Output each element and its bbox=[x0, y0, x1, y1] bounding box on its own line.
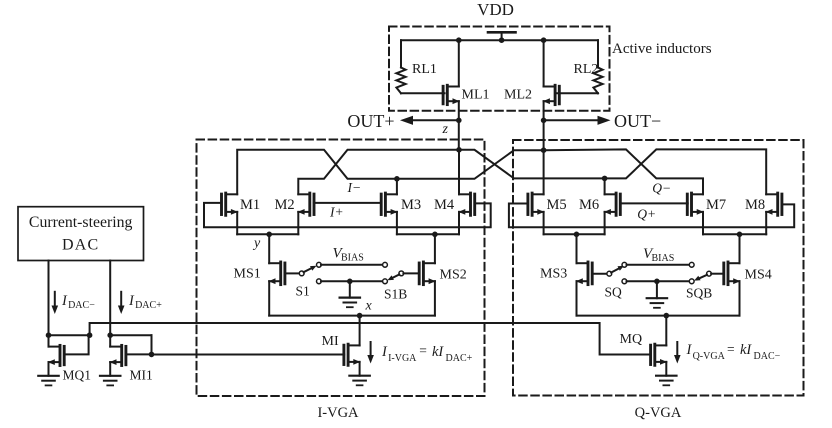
svg-text:DAC: DAC bbox=[62, 237, 99, 254]
label S1B bbox=[384, 287, 407, 302]
label RL2 bbox=[574, 62, 599, 77]
svg-text:I−: I− bbox=[347, 180, 362, 195]
wire M6 source bbox=[604, 212, 606, 234]
resistor RL2 bbox=[593, 68, 602, 94]
wire M5/M6 source rail bbox=[544, 233, 605, 235]
wire MQ drain bbox=[665, 316, 667, 346]
wire ground stem Q bbox=[656, 281, 658, 298]
label RL1 bbox=[412, 62, 437, 77]
svg-text:Q-VGA: Q-VGA bbox=[693, 351, 726, 362]
label MI bbox=[322, 334, 339, 349]
resistor RL1 bbox=[396, 68, 405, 94]
svg-text:I+: I+ bbox=[329, 205, 344, 220]
wire z to I-quad bbox=[458, 120, 460, 149]
switch SQB bbox=[694, 271, 711, 280]
svg-text:MS4: MS4 bbox=[745, 268, 772, 283]
switch S1B bbox=[387, 271, 403, 280]
wire MI1 drain drop bbox=[109, 335, 111, 346]
svg-text:BIAS: BIAS bbox=[341, 253, 364, 264]
label M8 bbox=[745, 197, 765, 213]
wire M5 gate jog to M8 gate jog bbox=[509, 204, 794, 228]
node MS2 tap bbox=[432, 232, 438, 238]
current arrow Q-VGA bbox=[674, 342, 681, 364]
node MS3 tap bbox=[574, 232, 580, 238]
ground (MI) bbox=[349, 376, 369, 386]
svg-text:I-VGA: I-VGA bbox=[317, 405, 359, 421]
transistor MI bbox=[344, 344, 360, 365]
wire MI gate (from mirror MI1) bbox=[152, 354, 345, 356]
wire M7 source bbox=[702, 212, 704, 234]
label MI1 bbox=[130, 368, 153, 383]
label ML1 bbox=[462, 88, 490, 103]
svg-text:BIAS: BIAS bbox=[652, 253, 675, 264]
node z line joins net OUT+ bbox=[456, 147, 462, 153]
label I- bbox=[347, 180, 362, 195]
label M7 bbox=[706, 197, 726, 213]
node MQ1 drain bbox=[46, 332, 52, 338]
label MS4 bbox=[745, 268, 772, 283]
node ML1 drain on rail bbox=[456, 37, 462, 43]
label Active inductors bbox=[612, 41, 712, 57]
svg-text:ML2: ML2 bbox=[504, 88, 532, 103]
wire ML1 source to OUT+ node bbox=[458, 101, 460, 120]
svg-text:=: = bbox=[419, 343, 427, 358]
wire M3 source bbox=[396, 212, 398, 234]
ground (MQ1) bbox=[38, 376, 58, 386]
svg-text:I: I bbox=[128, 293, 135, 309]
svg-text:DAC+: DAC+ bbox=[446, 353, 473, 364]
transistor MQ bbox=[651, 344, 667, 365]
label MQ1 bbox=[63, 368, 92, 383]
transistor MI1 bbox=[110, 345, 126, 365]
svg-text:Q−: Q− bbox=[652, 181, 671, 196]
wire MQ1 gate riser bbox=[65, 335, 88, 354]
transistor M1 bbox=[222, 193, 238, 215]
wire MS1/MS2 source rail (node x) bbox=[269, 315, 435, 317]
wire MS1 drain bbox=[268, 234, 270, 263]
label Q+ bbox=[637, 207, 656, 222]
svg-text:M1: M1 bbox=[240, 197, 260, 213]
svg-text:Active inductors: Active inductors bbox=[612, 41, 712, 57]
wire DAC output I_DAC+ bbox=[109, 261, 111, 336]
svg-text:M4: M4 bbox=[434, 197, 455, 213]
svg-text:SQB: SQB bbox=[686, 286, 712, 301]
wire M4 source bbox=[458, 212, 460, 234]
svg-text:RL2: RL2 bbox=[574, 62, 599, 77]
wire MS2 gate bbox=[403, 272, 418, 274]
wire MS1 source bbox=[268, 281, 270, 315]
svg-text:Q+: Q+ bbox=[637, 207, 656, 222]
wire MQ1 drain drop bbox=[48, 335, 50, 346]
svg-text:=: = bbox=[727, 342, 735, 357]
wire MI1 gate riser bbox=[151, 335, 153, 354]
label I_Q-VGA = kI_DAC- bbox=[686, 342, 781, 363]
svg-text:ML1: ML1 bbox=[462, 88, 490, 103]
wire MS3 source bbox=[576, 281, 578, 315]
label I_DAC- bbox=[61, 293, 95, 311]
label ML2 bbox=[504, 88, 532, 103]
node x junction bbox=[357, 313, 363, 319]
svg-text:SQ: SQ bbox=[605, 285, 623, 300]
wire MI drain bbox=[359, 316, 361, 346]
wire M5 drain bbox=[543, 150, 545, 194]
label node y bbox=[252, 236, 261, 251]
svg-text:x: x bbox=[365, 299, 373, 314]
svg-text:Current-steering: Current-steering bbox=[29, 214, 133, 231]
transistor ML2 bbox=[543, 85, 559, 104]
wire RL1 top bbox=[400, 40, 402, 67]
wire Q+ line (M6 gate to M7 gate) bbox=[620, 202, 688, 204]
dashed box Q-VGA bbox=[513, 140, 804, 396]
wire MS4 drain bbox=[739, 234, 741, 263]
svg-text:MS2: MS2 bbox=[440, 268, 467, 283]
svg-text:MS3: MS3 bbox=[540, 267, 567, 282]
wire MS2 source bbox=[434, 281, 436, 315]
node ground tap I bbox=[347, 279, 353, 285]
wire ML2 drain bbox=[543, 40, 545, 86]
dashed box I-VGA bbox=[197, 140, 485, 397]
svg-text:MI1: MI1 bbox=[130, 368, 153, 383]
label I_I-VGA = kI_DAC+ bbox=[381, 343, 473, 364]
transistor M3 bbox=[381, 193, 397, 215]
transistor MS2 bbox=[419, 262, 435, 285]
node OUT- line joins M5 drain bbox=[541, 147, 547, 153]
label node x bbox=[365, 299, 373, 314]
svg-text:M3: M3 bbox=[401, 197, 421, 213]
svg-text:I-VGA: I-VGA bbox=[388, 353, 417, 364]
svg-text:z: z bbox=[442, 122, 449, 137]
label node z bbox=[442, 122, 449, 137]
label OUT- bbox=[614, 111, 661, 131]
node MQ1 gate tie bbox=[87, 332, 93, 338]
node OUT- bbox=[541, 118, 547, 124]
transistor ML1 bbox=[443, 85, 459, 104]
wire M6 drain bbox=[604, 178, 606, 194]
svg-text:DAC−: DAC− bbox=[754, 351, 781, 362]
transistor MS4 bbox=[724, 262, 740, 285]
current arrow I_DAC+ bbox=[118, 292, 125, 314]
wire OUT+ arrow bbox=[400, 116, 459, 125]
wire MQ gate (long, from mirror MQ1) bbox=[90, 323, 651, 355]
svg-text:kI: kI bbox=[432, 344, 444, 360]
svg-text:MQ1: MQ1 bbox=[63, 368, 92, 383]
transistor M8 bbox=[766, 193, 782, 215]
transistor M5 bbox=[528, 193, 544, 215]
wire VBIAS bar Q bbox=[627, 262, 695, 267]
node MI1 drain bbox=[107, 332, 113, 338]
ground (switch stage Q) bbox=[647, 298, 667, 308]
wire MS2 drain bbox=[434, 234, 436, 263]
ground (switch stage I) bbox=[340, 298, 360, 308]
label VBIAS I bbox=[333, 246, 364, 264]
wire OUT- to Q-quad bbox=[543, 120, 545, 150]
power VDD label bbox=[477, 0, 514, 19]
wire MS1 gate bbox=[286, 272, 300, 274]
svg-text:M5: M5 bbox=[547, 197, 567, 213]
wire I+ line (M2 gate to M3 gate) bbox=[314, 202, 382, 204]
svg-text:DAC+: DAC+ bbox=[135, 300, 162, 311]
label M2 bbox=[275, 197, 295, 213]
svg-text:I: I bbox=[61, 293, 68, 309]
switch S1 bbox=[299, 262, 321, 275]
label M4 bbox=[434, 197, 455, 213]
svg-text:M8: M8 bbox=[745, 197, 765, 213]
label S1 bbox=[296, 284, 310, 299]
ground (MQ) bbox=[656, 376, 676, 386]
wire ML2 source to OUT- node bbox=[543, 101, 545, 120]
label MS2 bbox=[440, 268, 467, 283]
svg-text:MQ: MQ bbox=[620, 332, 643, 347]
transistor MS3 bbox=[576, 262, 592, 285]
wire MS3 gate bbox=[593, 273, 607, 275]
svg-text:MS1: MS1 bbox=[234, 267, 261, 282]
label SQB bbox=[686, 286, 712, 301]
svg-text:Q-VGA: Q-VGA bbox=[635, 405, 682, 421]
wire M2 source bbox=[297, 212, 299, 234]
wire VBIAS bar I bbox=[321, 262, 387, 267]
label M3 bbox=[401, 197, 421, 213]
transistor M6 bbox=[604, 193, 620, 215]
label Q-VGA bbox=[635, 405, 682, 421]
current arrow I-VGA bbox=[367, 342, 374, 364]
switch SQ bbox=[607, 262, 627, 276]
wire DAC output I_DAC- bbox=[48, 261, 50, 336]
current arrow I_DAC- bbox=[52, 292, 59, 314]
node M3 drain junction bbox=[394, 176, 400, 182]
svg-text:y: y bbox=[252, 236, 261, 251]
wire M3/M4 source rail bbox=[397, 233, 459, 235]
svg-text:OUT+: OUT+ bbox=[347, 111, 394, 131]
node VDD rail junction bbox=[499, 37, 505, 43]
wire net OUT+ (M2 drain to cross-couplings) bbox=[298, 149, 766, 194]
wire M5 source bbox=[543, 212, 545, 234]
wire MS4 gate bbox=[711, 273, 723, 275]
label MS3 bbox=[540, 267, 567, 282]
wire RL2 top bbox=[597, 40, 599, 67]
transistor M4 bbox=[458, 193, 474, 215]
label MQ bbox=[620, 332, 643, 347]
svg-text:OUT−: OUT− bbox=[614, 111, 661, 131]
label Q- bbox=[652, 181, 671, 196]
ground (MI1) bbox=[100, 376, 120, 386]
wire M8 source bbox=[765, 212, 767, 234]
svg-text:MI: MI bbox=[322, 334, 339, 349]
svg-text:I: I bbox=[381, 344, 388, 360]
label I+ bbox=[329, 205, 344, 220]
label SQ bbox=[605, 285, 623, 300]
label I_DAC+ bbox=[128, 293, 162, 311]
wire MI1 source bbox=[109, 362, 111, 376]
svg-text:M6: M6 bbox=[579, 197, 599, 213]
node ML2 drain on rail bbox=[541, 37, 547, 43]
wire M4 drain bbox=[458, 150, 460, 195]
node MQ drain tap bbox=[664, 313, 670, 319]
label OUT+ bbox=[347, 111, 394, 131]
label M6 bbox=[579, 197, 599, 213]
wire MI1 gate bbox=[127, 353, 152, 355]
svg-text:RL1: RL1 bbox=[412, 62, 437, 77]
svg-text:M2: M2 bbox=[275, 197, 295, 213]
wire net OUT- (M1/M3 drains, I- line) bbox=[237, 150, 543, 195]
transistor M2 bbox=[298, 193, 314, 215]
wire ground bar Q bbox=[622, 279, 694, 284]
wire ground stem I bbox=[349, 281, 351, 297]
power VDD symbol bbox=[488, 32, 516, 40]
wire MI1 drain rail bbox=[110, 334, 151, 336]
wire RL1 to ML1 gate bbox=[401, 92, 445, 94]
node y junction bbox=[266, 232, 272, 238]
svg-text:S1: S1 bbox=[296, 284, 310, 299]
svg-text:DAC−: DAC− bbox=[68, 300, 95, 311]
label M5 bbox=[547, 197, 567, 213]
dashed box Active inductors bbox=[389, 27, 610, 111]
wire OUT- arrow bbox=[544, 116, 611, 125]
wire M1 source bbox=[236, 212, 238, 234]
wire M1 gate jog to M4 gate jog bbox=[204, 203, 491, 227]
transistor M7 bbox=[687, 193, 703, 215]
svg-text:M7: M7 bbox=[706, 197, 726, 213]
node ground tap Q bbox=[654, 279, 660, 285]
wire M1/M2 source rail (node y) bbox=[237, 233, 298, 235]
wire MS3/MS4 source rail bbox=[577, 315, 740, 317]
transistor MS1 bbox=[269, 262, 285, 285]
wire VDD rail bbox=[401, 39, 598, 41]
wire MQ source bbox=[665, 362, 667, 376]
node MI1 gate tie bbox=[149, 352, 155, 358]
svg-text:kI: kI bbox=[740, 342, 752, 358]
label VBIAS Q bbox=[643, 246, 674, 264]
wire M7/M8 source rail bbox=[703, 233, 766, 235]
wire MQ1 drain rail bbox=[49, 334, 90, 336]
label M1 bbox=[240, 197, 260, 213]
block Current-steering DAC bbox=[18, 207, 144, 261]
wire MI source bbox=[359, 362, 361, 376]
wire ground bar I bbox=[317, 279, 388, 284]
wire Q-quad net OUT- (X3 to M7 drain) bbox=[544, 149, 703, 194]
label MS1 bbox=[234, 267, 261, 282]
label I-VGA bbox=[317, 405, 359, 421]
node MS4 tap bbox=[737, 232, 743, 238]
wire MS4 source bbox=[739, 281, 741, 315]
wire RL2 to ML2 gate bbox=[556, 92, 598, 94]
wire MQ1 source bbox=[48, 362, 50, 376]
node M6 drain junction bbox=[602, 176, 608, 182]
transistor MQ1 bbox=[48, 345, 64, 365]
svg-text:S1B: S1B bbox=[384, 287, 407, 302]
wire M3 drain bbox=[396, 179, 398, 195]
node OUT+ (z) bbox=[456, 118, 462, 124]
wire MS3 drain bbox=[576, 234, 578, 263]
wire ML1 drain bbox=[458, 40, 460, 86]
svg-text:VDD: VDD bbox=[477, 0, 514, 19]
svg-text:I: I bbox=[686, 342, 693, 358]
